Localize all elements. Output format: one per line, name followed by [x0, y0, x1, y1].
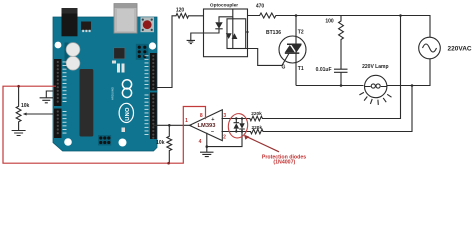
svg-text:T2: T2 — [298, 30, 304, 36]
svg-text:3: 3 — [223, 113, 226, 119]
svg-text:4: 4 — [199, 139, 202, 145]
svg-text:2: 2 — [223, 134, 226, 140]
svg-text:100: 100 — [325, 18, 334, 24]
svg-text:(1N4007): (1N4007) — [273, 159, 295, 165]
svg-text:G: G — [282, 65, 286, 71]
svg-text:220V Lamp: 220V Lamp — [362, 64, 388, 70]
svg-text:8: 8 — [200, 113, 203, 119]
svg-text:−: − — [211, 130, 214, 136]
svg-text:1: 1 — [185, 118, 188, 124]
svg-text:T1: T1 — [298, 66, 304, 72]
svg-text:ARDUINO: ARDUINO — [111, 86, 115, 100]
svg-text:BT136: BT136 — [266, 30, 281, 36]
svg-text:220k: 220k — [252, 125, 263, 131]
svg-text:220VAC: 220VAC — [448, 45, 472, 52]
svg-text:Optocoupler: Optocoupler — [210, 3, 238, 9]
svg-text:+: + — [211, 117, 214, 123]
svg-text:LM393: LM393 — [198, 123, 216, 129]
svg-text:UNO: UNO — [125, 107, 131, 121]
svg-text:0.01uF: 0.01uF — [316, 67, 332, 73]
svg-text:220k: 220k — [251, 111, 262, 117]
svg-text:10k: 10k — [156, 140, 165, 146]
svg-text:120: 120 — [176, 7, 185, 13]
svg-text:470: 470 — [256, 3, 265, 9]
svg-text:10k: 10k — [21, 103, 30, 109]
